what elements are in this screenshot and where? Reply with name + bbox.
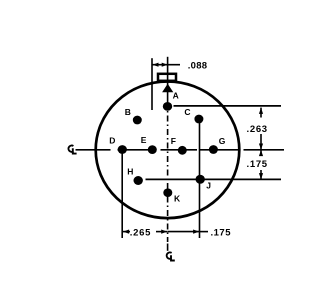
svg-text:.175: .175	[247, 159, 268, 170]
svg-text:E: E	[141, 135, 147, 145]
svg-text:B: B	[125, 107, 131, 117]
svg-text:F: F	[171, 136, 176, 146]
svg-text:G: G	[219, 136, 226, 146]
svg-text:.265: .265	[130, 227, 151, 238]
svg-text:D: D	[109, 136, 115, 146]
svg-text:K: K	[174, 193, 181, 203]
svg-text:A: A	[173, 91, 179, 101]
svg-text:.088: .088	[188, 61, 208, 72]
svg-text:C: C	[184, 107, 190, 117]
svg-text:.263: .263	[247, 124, 268, 135]
svg-text:.175: .175	[211, 227, 232, 238]
svg-text:H: H	[127, 167, 133, 177]
svg-text:J: J	[206, 180, 211, 190]
